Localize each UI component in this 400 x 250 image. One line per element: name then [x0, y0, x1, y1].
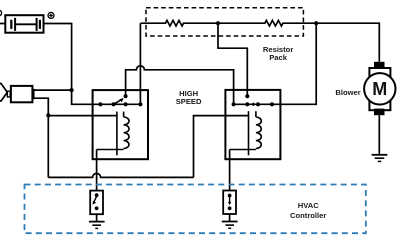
- relay K2 box: [225, 90, 280, 159]
- wire connector pin2 down: [34, 98, 49, 177]
- wire up to relay K2 coil: [194, 116, 249, 178]
- wire S2 to ground: [229, 214, 231, 221]
- resistor pack dashed box: [146, 8, 303, 36]
- ground (S2): [222, 222, 238, 229]
- wire K1 upper contact to K2 left contact with hop: [126, 66, 234, 105]
- wire K2 upper contact to resistor junction: [218, 23, 247, 96]
- wire pin2 branch to relay K1 coil: [48, 115, 117, 117]
- node pin2 branch: [46, 113, 50, 117]
- terminal circle (left edge, clipped): [0, 10, 2, 16]
- svg-text:HVAC: HVAC: [298, 201, 319, 210]
- node junction battery/ignition: [70, 88, 74, 92]
- connector (ignition feed): [0, 84, 34, 103]
- wire K2 coil to switch S2: [229, 150, 231, 191]
- plus terminal: [48, 12, 54, 18]
- relay K1 contact dots: [98, 102, 102, 106]
- wire connector pin1 to junction: [34, 89, 72, 91]
- resistor line with R1 and R2 zigzags, to motor: [141, 20, 380, 61]
- wire battery left lead: [0, 23, 5, 25]
- battery B1: [5, 15, 43, 33]
- ground (S1): [89, 222, 105, 229]
- relay K2 contact dots: [232, 102, 236, 106]
- motor M1 (blower): [364, 62, 395, 115]
- relay K2 blade arrowhead (closed): [250, 102, 254, 106]
- wire K1 coil to switch S1: [96, 150, 98, 191]
- svg-text:Blower: Blower: [335, 88, 360, 97]
- wire pin2 bottom run with hop: [48, 173, 193, 177]
- relay K2 coil: [230, 111, 262, 155]
- node resistor junction: [216, 21, 220, 25]
- relay K1 box: [93, 90, 148, 159]
- wire motor to ground: [378, 115, 380, 155]
- svg-text:M: M: [372, 79, 387, 99]
- node blower junction: [314, 21, 318, 25]
- relay K1 blade (open): [114, 100, 122, 105]
- switch S1 (open): [90, 191, 103, 215]
- relay K1 coil: [97, 112, 129, 156]
- HVAC controller dashed blue box: [25, 185, 366, 234]
- switch S2 (closed): [223, 191, 236, 215]
- svg-text:Controller: Controller: [290, 211, 326, 220]
- svg-text:Pack: Pack: [269, 53, 288, 62]
- ground (motor): [372, 155, 388, 162]
- relay K2 row to blower riser: [234, 23, 317, 104]
- wire battery to relay K1 common (row): [44, 24, 141, 105]
- wire K1 right contact up to resistor line: [139, 23, 141, 104]
- wire S1 to ground: [96, 214, 98, 221]
- svg-text:SPEED: SPEED: [176, 97, 202, 106]
